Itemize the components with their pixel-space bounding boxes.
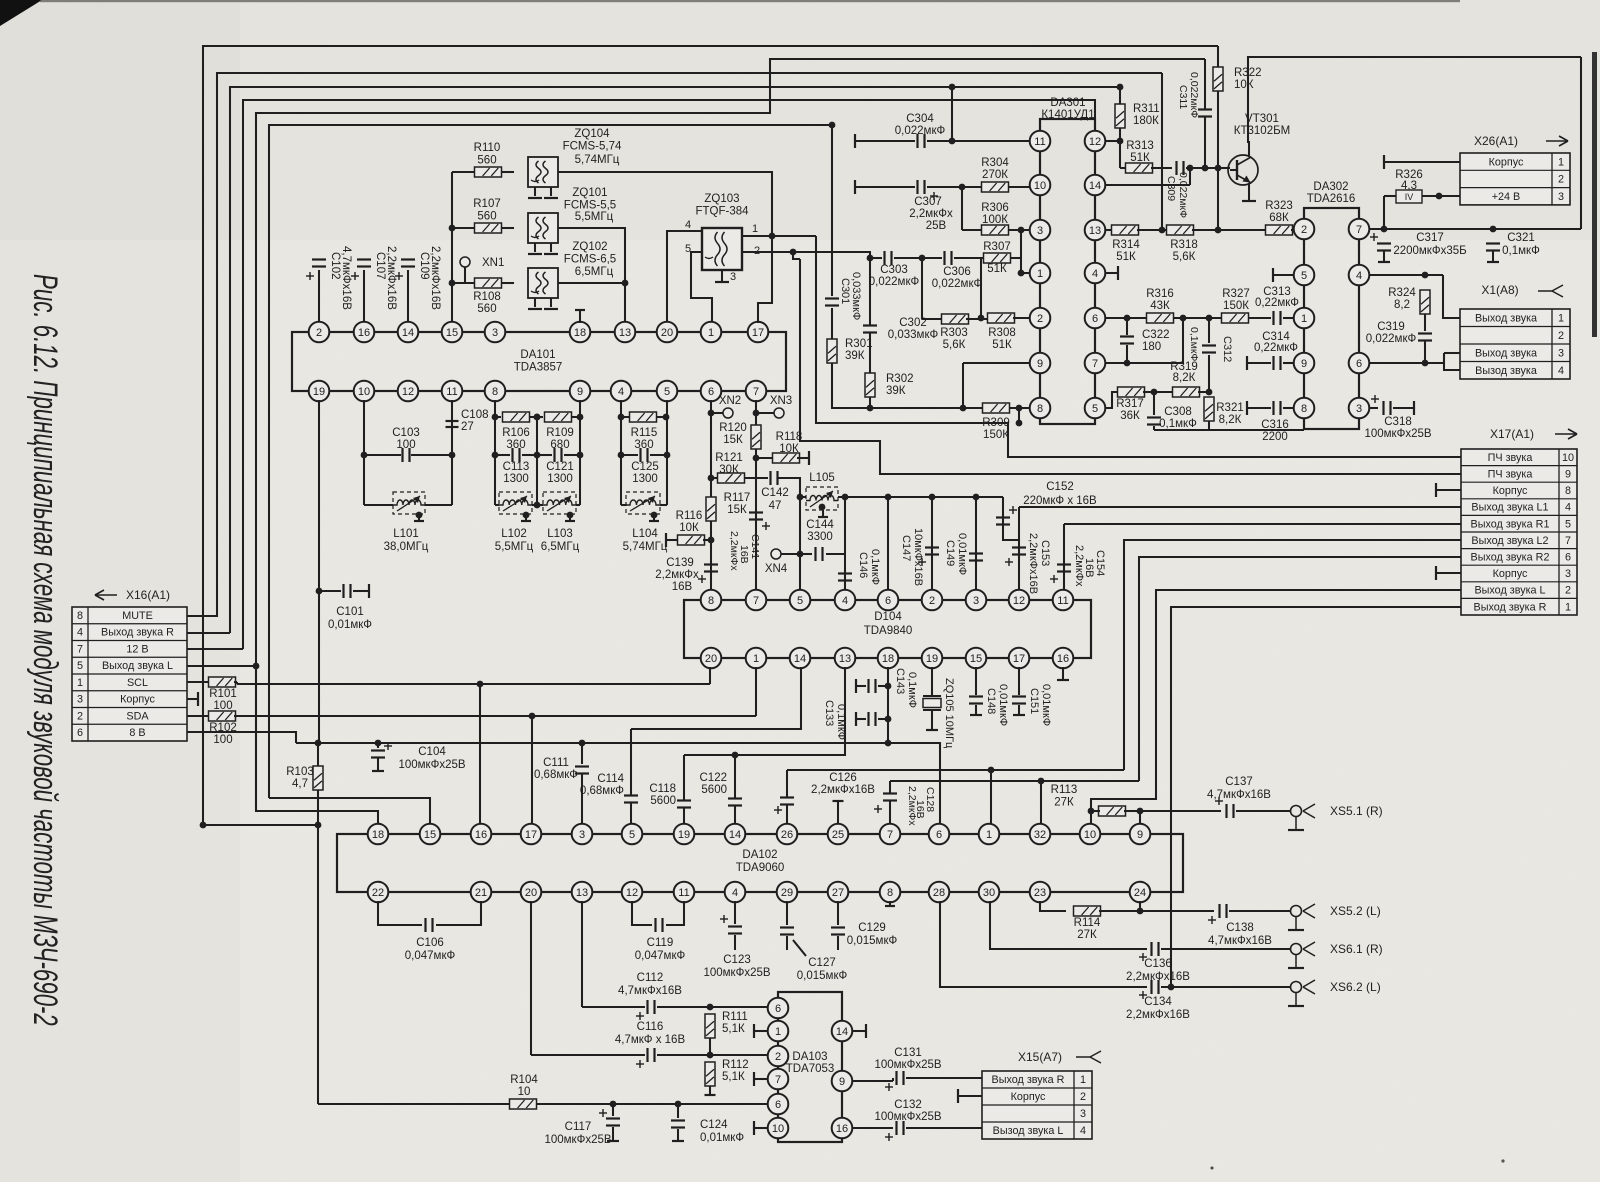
w [1140,910,1214,912]
label C317 2200мкФх35Б [1393,232,1466,257]
svg-text:1: 1 [753,653,759,665]
terminal [855,679,857,693]
svg-text:R107: R107 [473,198,501,210]
wire to DA102 pin1 [990,770,992,824]
svg-text:4,7мкФх16В: 4,7мкФх16В [340,246,352,310]
label R324 8,2 [1388,287,1416,311]
wire W2 IF line to X17 row9 [800,259,1461,474]
label C126 2,2мкФх16В [811,772,875,796]
svg-text:51К: 51К [992,339,1012,351]
w [236,682,238,684]
w [1151,167,1172,169]
wire rail743 [296,743,940,824]
svg-text:4: 4 [77,627,83,639]
svg-text:Выход звука L1: Выход звука L1 [1471,502,1548,514]
polarity + [1215,797,1223,805]
w [1105,272,1117,274]
svg-text:C152: C152 [1046,481,1074,493]
wire bus L2 down [1161,73,1163,230]
w [495,504,499,506]
svg-text:10: 10 [518,1086,531,1098]
scan artifact right edge [1592,52,1597,337]
w [1173,317,1222,319]
svg-text:C312: C312 [1221,336,1233,362]
svg-text:C141: C141 [749,534,761,559]
pin 6 D104 top [878,590,899,611]
junction [1159,227,1166,234]
capacitor C106 [426,918,433,932]
w [1291,229,1294,231]
svg-text:C138: C138 [1226,922,1254,934]
pin 4 DA101 bottom [611,381,632,402]
wire pin4 col [620,400,622,505]
svg-text:100мкФх25В: 100мкФх25В [544,1134,611,1146]
pin 6 DA103 left [768,998,789,1019]
svg-text:2,2мкФх16В: 2,2мкФх16В [1027,533,1039,594]
svg-text:0,1мкФ: 0,1мкФ [1188,327,1200,361]
capacitor C117 [606,1119,620,1126]
w [703,539,711,541]
pin 9 DA101 bottom [570,381,591,402]
junction [1137,808,1144,815]
svg-text:XS6.2 (L): XS6.2 (L) [1330,980,1381,994]
svg-text:14: 14 [794,653,806,665]
svg-text:270К: 270К [982,169,1008,181]
svg-text:51К: 51К [1130,152,1150,164]
svg-text:2: 2 [1080,1091,1086,1103]
wire bottom rail DA301 [1154,429,1304,431]
svg-text:C108: C108 [461,409,489,421]
resistor R112 [705,1062,715,1086]
w [630,803,632,824]
svg-text:2: 2 [1558,330,1564,342]
svg-text:1: 1 [1558,156,1564,168]
svg-text:C134: C134 [1144,996,1172,1008]
capacitor C152 [996,518,1010,525]
svg-text:14: 14 [1089,180,1101,192]
terminal pin18 [575,309,585,311]
svg-text:C125: C125 [631,461,659,473]
capacitor C147 [925,548,939,555]
label R316 43К [1146,288,1174,312]
pin 8 DA301 left [1030,398,1051,419]
w [1393,407,1413,409]
label R108 560 [473,291,501,315]
svg-text:Выход звука: Выход звука [1475,312,1537,324]
ground [528,253,542,255]
w [734,806,736,824]
svg-text:XN3: XN3 [770,395,792,407]
svg-text:C322: C322 [1142,329,1170,341]
pin 17 D104 bottom [1009,648,1030,669]
svg-text:C131: C131 [894,1047,922,1059]
polarity + [351,272,359,280]
svg-text:10: 10 [358,386,370,398]
w [1283,317,1294,319]
w [954,257,981,259]
svg-text:15: 15 [446,327,458,339]
scan artifact corner [0,0,42,26]
capacitor C134 [1152,980,1159,994]
ground [885,905,895,907]
pin 7 DA301 right [1085,353,1106,374]
polarity + [1009,506,1017,514]
wire ZQ104 leg1 [534,187,536,196]
junction [534,414,541,421]
pin 2 DA103 left [768,1046,789,1067]
junction [1490,226,1497,233]
label C132 100мкФх25В [874,1099,941,1123]
w [532,504,537,506]
svg-text:DA301: DA301 [1050,97,1085,109]
svg-text:30: 30 [983,887,995,899]
crystal ZQ105 [923,696,941,710]
label C111 0,68мкФ [534,757,578,781]
svg-text:6: 6 [708,386,714,398]
svg-text:R321: R321 [1216,402,1244,414]
svg-text:51К: 51К [987,263,1007,275]
svg-text:4: 4 [1565,502,1571,514]
pin 11 DA101 bottom [442,381,463,402]
terminal [854,134,856,148]
w [855,140,915,142]
terminal [665,533,667,547]
svg-text:Выход звука R: Выход звука R [101,627,174,639]
svg-text:5: 5 [797,595,803,607]
terminal [854,180,856,194]
w [797,457,808,459]
svg-text:0,033мкФ: 0,033мкФ [888,329,939,341]
wire R110-ZQ104 [502,171,514,173]
svg-text:ПЧ звука: ПЧ звука [1488,469,1533,481]
svg-text:29: 29 [781,887,793,899]
node XN3 [774,408,784,418]
svg-text:150К: 150К [1223,300,1249,312]
capacitor C132 [897,1121,904,1135]
svg-text:38,0МГц: 38,0МГц [384,541,429,553]
w [1189,168,1191,185]
svg-text:8,2К: 8,2К [1219,414,1242,426]
pin 16 DA102 top [471,824,492,845]
resistor R307 [984,253,1011,263]
junction [610,1101,617,1108]
capacitor C141 [749,513,763,520]
transistor VT301 [1228,155,1258,185]
connector X26(A1) [1460,153,1570,205]
resistor R104 [510,1099,537,1109]
wire pin9 col [579,400,581,505]
pin 20 DA101 top [657,322,678,343]
w [786,901,788,925]
svg-text:Корпус: Корпус [120,694,155,706]
wire to pin1 [1021,272,1030,274]
w [1424,341,1426,363]
w [1436,572,1461,574]
wire C303C306 down [921,258,923,319]
w [826,553,845,555]
pin 7 DA103 left [768,1069,789,1090]
w [683,755,685,800]
w [353,590,369,592]
junction [885,683,892,690]
svg-text:15: 15 [424,829,436,841]
svg-text:C116: C116 [637,1021,664,1033]
label C121 1300 [546,461,574,485]
label C112 4,7мкФх16В [618,972,682,997]
pin 19 DA102 top [674,824,695,845]
svg-text:3: 3 [1565,568,1571,580]
wire SDA line [237,715,756,717]
w [856,685,866,687]
wire C103 right [411,454,452,456]
w [572,416,580,418]
resistor R114 [1074,906,1101,916]
node XN1 [460,257,470,267]
capacitor C154 [1057,565,1071,572]
wire ZQ102 out [558,282,625,284]
junction [753,410,760,417]
svg-text:DA103: DA103 [792,1051,827,1063]
svg-text:C318: C318 [1384,416,1412,428]
ground [818,516,828,518]
ground [1487,261,1499,263]
wire bus L4 to DA301 [243,100,1095,649]
svg-text:7: 7 [77,643,83,655]
pin 6 DA301 right [1085,308,1106,329]
svg-text:C132: C132 [894,1099,922,1111]
label C108 27 [461,409,489,433]
junction [1202,165,1209,172]
w [1119,128,1121,141]
resistor R301 [827,339,837,363]
svg-text:R108: R108 [473,291,501,303]
junction [1151,389,1158,396]
terminal [753,1072,755,1086]
capacitor C129 [831,928,845,935]
pin 6 DA102 top [929,824,950,845]
ground [544,308,558,310]
svg-text:R309: R309 [982,417,1010,429]
pin 11 D104 top [1053,590,1074,611]
pin 1 DA301 left [1030,263,1051,284]
svg-text:560: 560 [477,155,496,167]
svg-text:XN1: XN1 [482,257,504,269]
svg-text:6: 6 [1092,313,1098,325]
wire ZQ104 leg2 [550,187,552,196]
svg-text:R318: R318 [1170,239,1198,251]
ground bar X26 [1383,155,1385,169]
label R104 10 [510,1074,538,1098]
wire pin12 down [632,901,652,925]
junction [416,512,423,519]
svg-text:DA102: DA102 [742,849,777,861]
junction [1124,315,1131,322]
svg-text:C137: C137 [1225,776,1253,788]
junction [949,84,956,91]
w [1218,167,1230,169]
capacitor C153 [1012,548,1026,555]
svg-text:R117: R117 [724,492,751,504]
ground [715,281,729,283]
svg-text:Корпус: Корпус [1489,156,1524,168]
pin 7 DA302 right [1349,219,1370,240]
junction [316,588,323,595]
ground [565,520,575,522]
resistor R115 [630,412,657,422]
resistor R324 [1420,290,1430,314]
w [889,801,891,824]
junction [579,740,586,747]
svg-text:R112: R112 [722,1059,749,1071]
svg-text:22: 22 [372,887,384,899]
w [576,504,580,506]
pin 6 DA302 right [1349,353,1370,374]
label ZQ104 FCMS-5,74 [563,128,622,153]
w [1099,910,1140,912]
svg-text:C114: C114 [597,773,624,785]
svg-text:2,2мкФх16В: 2,2мкФх16В [385,246,397,310]
svg-text:C306: C306 [943,266,971,278]
label C313 0,22мкФ [1255,286,1299,309]
w [855,186,915,188]
svg-text:4,7: 4,7 [292,778,308,790]
svg-text:1: 1 [1301,313,1307,325]
junction [1381,226,1388,233]
junction [663,414,670,421]
svg-text:4: 4 [685,219,691,231]
capacitor C118 [677,801,691,808]
ground bar X17 row3 [1435,566,1437,580]
stub bar pin25 [833,800,844,802]
svg-text:10: 10 [1034,180,1046,192]
resistor R303 [942,314,969,324]
svg-text:7: 7 [775,1074,781,1086]
resistor R109 [545,412,572,422]
w [1369,407,1378,409]
pin 3 DA101 top [485,322,506,343]
svg-text:9: 9 [1301,358,1307,370]
svg-text:16В: 16В [738,545,750,564]
svg-text:17: 17 [752,327,764,339]
pin 20 D104 bottom [701,648,722,669]
pin 3 DA301 left [1030,220,1051,241]
label R322 10К [1234,67,1262,91]
junction [867,405,874,412]
label R106 360 [502,427,530,451]
junction [1016,405,1023,412]
pin 20 DA102 bottom [521,882,542,903]
svg-text:R313: R313 [1126,140,1154,152]
svg-text:3: 3 [1080,1108,1086,1120]
svg-text:1300: 1300 [632,473,658,485]
junction [1180,315,1187,322]
wire pin18 col down [887,667,889,743]
polarity + [698,575,706,583]
wire pin14 line [631,667,801,729]
terminal [865,1024,867,1038]
label C134 2,2мкФх16В [1126,996,1190,1021]
w [1198,391,1209,393]
svg-text:0,01мкФ: 0,01мкФ [700,1132,744,1144]
capacitor C111 [575,767,589,774]
wire C154 col [1063,524,1065,595]
svg-text:ПЧ звука: ПЧ звука [1488,452,1533,464]
svg-text:Выход звука L: Выход звука L [1474,585,1545,597]
w [1091,810,1100,812]
pin 5 DA102 top [622,824,643,845]
svg-text:9: 9 [1137,829,1143,841]
pin 13 DA301 right [1085,220,1106,241]
capacitor C144 [816,547,823,561]
label R117 15К [724,492,751,516]
svg-text:0,68мкФ: 0,68мкФ [534,769,578,781]
IC body DA101 [292,332,786,391]
svg-text:11: 11 [1057,595,1068,607]
capacitor C133 [869,712,876,726]
w [894,257,942,259]
svg-text:C304: C304 [906,113,934,125]
svg-text:360: 360 [634,439,653,451]
label L102 5,5МГц [495,528,534,553]
wire C304 to bus L3 [951,87,953,141]
svg-text:9: 9 [839,1076,845,1088]
pin 12 DA301 right [1085,131,1106,152]
w [1204,59,1206,109]
w [800,553,812,555]
svg-text:8: 8 [1037,403,1043,415]
wire ZQ101 out to pin13 [558,228,625,332]
svg-text:C103: C103 [392,427,420,439]
wire C149 col [975,497,977,595]
wire to pin9 [1139,811,1141,824]
junction [1206,389,1213,396]
capacitor C303 [885,251,892,265]
wire pin6 [1369,362,1444,364]
svg-text:8,2: 8,2 [1394,299,1410,311]
junction [315,740,322,747]
svg-text:16В: 16В [672,581,693,593]
wire X17 row1 down [1171,607,1461,987]
terminal [197,692,199,706]
label C127 0,015мкФ [797,957,848,982]
w [889,901,891,905]
w [1444,352,1460,354]
svg-text:C307: C307 [914,196,942,208]
scan artifact speck [1211,1167,1214,1170]
capacitor C104 [371,751,385,758]
svg-text:47: 47 [769,500,782,512]
svg-text:C112: C112 [637,972,664,984]
polarity + [306,272,314,280]
svg-text:6: 6 [775,1099,781,1111]
svg-text:C153: C153 [1039,540,1051,566]
capacitor C143 [869,679,876,693]
svg-text:Выход звука: Выход звука [1475,347,1537,359]
polarity + [885,1133,893,1141]
svg-text:R302: R302 [886,373,914,385]
IC body DA302 [1304,208,1359,429]
wire R107-ZQ101 [502,227,514,229]
polarity + [762,522,770,530]
wire C107 stub [363,270,365,332]
svg-text:C109: C109 [418,252,430,280]
pin 1 D104 bottom [746,648,767,669]
resistor R318 [1167,225,1194,235]
junction [842,494,849,501]
pin 14 DA101 top [398,322,419,343]
svg-text:2200мкФх35Б: 2200мкФх35Б [1393,245,1466,257]
ground bar X17 row8 [1435,483,1437,497]
